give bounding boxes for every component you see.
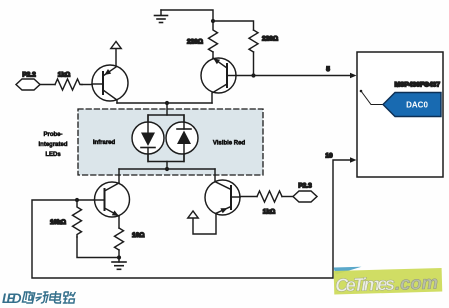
probe LED dashed box [78,109,263,175]
resistor R5 pulldown [73,200,82,237]
node LED top junction [165,101,169,105]
pin 5 arrowhead [350,73,357,79]
transistor Q2 (NPN, emitter up to R2) [201,58,236,103]
label Probe-Integrated LEDs [38,132,67,158]
svg-text:1kΩ: 1kΩ [58,72,70,79]
wire Q4 emitter to VCC2 [193,213,216,234]
port node P2.3 hexagon [293,183,317,203]
svg-text:LEDs: LEDs [45,152,61,158]
wire top tap into LED bracket [166,103,168,115]
wire Q3 base loop to MCU pin 10 [32,160,352,278]
power VCC1 arrow above Q1 [111,42,121,68]
svg-text:220Ω: 220Ω [187,39,203,46]
svg-text:Probe-: Probe- [43,132,62,138]
node top junction [211,19,215,23]
node Q3 base junction [75,198,79,202]
port node P2.2 hexagon [16,72,40,91]
wire to Q3 collector [118,169,120,183]
pin 10 arrowhead [350,157,357,163]
caption LED drive circuit (LED qu dong dian lu) [2,291,75,306]
svg-text:10kΩ: 10kΩ [50,219,66,226]
resistor R6 [257,191,282,202]
svg-text:Visible Red: Visible Red [213,141,246,147]
wire LED bracket frame [148,115,184,162]
wire R3 to base node [253,52,255,76]
wire base node to Q3 base [77,199,95,201]
node R3 base junction [251,73,255,77]
wire LED bottom tap [166,162,168,170]
ground GND2 (bottom) [112,258,126,270]
svg-text:.com: .com [395,272,439,294]
wire Q4 base to R6 [240,196,257,198]
ground GND1 (top rail) [155,10,168,23]
wire Q3 emitter to R4 [118,216,120,228]
wire to Q4 collector [214,169,216,182]
svg-text:1kΩ: 1kΩ [263,209,275,216]
wire bottom node rail [119,168,215,170]
wire R4 to ground junction [118,250,120,258]
resistor R2 [209,21,218,52]
svg-text:CeTimes: CeTimes [335,273,396,296]
LED D1 Infrared [132,115,164,162]
wire R2 to Q2 emitter [212,52,214,58]
MCU block U1 MSP430 [357,52,443,177]
resistor R3 [249,30,258,52]
svg-text:220Ω: 220Ω [262,36,278,43]
svg-text:5: 5 [326,66,330,73]
wire R5 bottom to ground junction [77,237,119,258]
svg-text:MSP430FG437: MSP430FG437 [395,82,441,89]
node ground junction [117,255,121,259]
node LED bottom junction [165,167,169,171]
svg-text:Integrated: Integrated [38,142,67,148]
svg-text:10Ω: 10Ω [132,232,144,239]
wire Q2 base to MCU pin 5 [236,75,352,77]
svg-text:DAC0: DAC0 [406,101,428,110]
watermark CeTimes.com [334,264,443,295]
svg-text:LED: LED [2,291,22,306]
wire R1 to Q1 base [82,84,92,86]
svg-text:10: 10 [325,153,333,160]
wire ground to top junction [161,10,213,21]
wire P2.2 to R1 [40,84,55,86]
resistor R4 [115,228,124,250]
wire R6 to P2.3 [282,196,293,198]
resistor R1 [55,79,82,90]
wire collector rail (LED anode node) [117,102,212,104]
svg-text:P2.3: P2.3 [298,183,312,190]
transistor Q4 (PNP, emitter bottom to VCC) [205,180,240,215]
transistor Q1 (PNP, emitter top to VCC) [92,65,128,103]
power VCC2 arrow [188,211,198,218]
wire top junction to R3 [213,21,254,30]
net flag DAC0 [360,90,441,117]
svg-text:Infrared: Infrared [93,140,116,146]
LED D2 Visible Red [166,115,198,162]
svg-text:P2.2: P2.2 [22,72,36,79]
transistor Q3 (NPN current sink) [95,182,130,217]
